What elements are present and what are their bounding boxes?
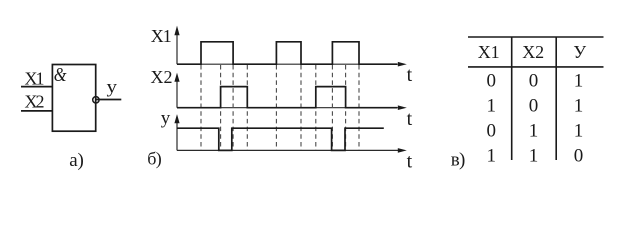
svg-text:&: & [54, 64, 67, 86]
svg-text:t: t [407, 64, 413, 86]
svg-text:0: 0 [487, 120, 497, 141]
svg-text:X1: X1 [478, 42, 500, 62]
svg-text:0: 0 [574, 145, 584, 166]
svg-text:t: t [407, 108, 413, 130]
svg-text:1: 1 [574, 70, 584, 91]
svg-text:X2: X2 [25, 91, 45, 111]
svg-text:б): б) [147, 148, 162, 169]
svg-text:1: 1 [529, 145, 539, 166]
svg-text:а): а) [69, 150, 84, 171]
svg-text:1: 1 [574, 95, 584, 116]
svg-text:X2: X2 [522, 42, 544, 62]
svg-text:0: 0 [487, 70, 497, 91]
svg-text:0: 0 [529, 70, 539, 91]
svg-text:1: 1 [529, 120, 539, 141]
svg-text:1: 1 [574, 120, 584, 141]
svg-text:y: y [107, 77, 118, 97]
svg-text:X1: X1 [151, 26, 172, 46]
svg-text:0: 0 [529, 95, 539, 116]
svg-text:в): в) [451, 150, 466, 171]
svg-text:X2: X2 [151, 67, 173, 87]
svg-text:X1: X1 [25, 68, 45, 88]
svg-text:t: t [407, 151, 413, 173]
svg-text:y: y [161, 107, 171, 127]
svg-text:1: 1 [487, 145, 497, 166]
svg-text:1: 1 [487, 95, 497, 116]
svg-text:У: У [573, 42, 586, 62]
